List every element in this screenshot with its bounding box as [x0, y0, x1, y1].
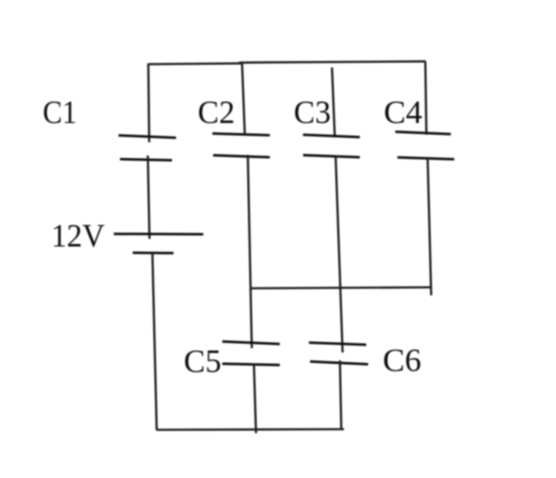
- svg-text:12V: 12V: [51, 219, 105, 255]
- wire battery to bottom rail: [152, 253, 156, 430]
- wire C1 top lead: [147, 64, 150, 143]
- svg-text:C6: C6: [383, 343, 422, 379]
- capacitor C5: [222, 342, 279, 366]
- wire C2 top lead: [242, 62, 245, 134]
- capacitor C6: [309, 343, 368, 365]
- wire C5 bottom lead: [254, 364, 256, 434]
- wire top rail right segment: [239, 61, 426, 62]
- wire bottom rail: [156, 428, 344, 431]
- svg-text:C1: C1: [43, 95, 77, 131]
- wire C3 top lead: [332, 68, 335, 138]
- wire top rail left segment: [148, 62, 241, 65]
- wire C4 top lead: [425, 61, 426, 134]
- svg-text:C2: C2: [198, 95, 235, 131]
- svg-text:C4: C4: [384, 95, 423, 131]
- svg-text:C3: C3: [294, 95, 331, 131]
- wire mid rail: [251, 287, 431, 288]
- capacitor C1: [119, 135, 177, 160]
- wire C3 to C6 lead: [336, 156, 343, 353]
- capacitor C3: [303, 135, 360, 158]
- capacitor C4: [395, 132, 454, 160]
- wire C4 to mid rail lead: [428, 157, 432, 295]
- wire C2 to C5 lead: [248, 155, 252, 348]
- wire C1 to battery lead: [148, 156, 150, 239]
- svg-text:C5: C5: [184, 344, 222, 380]
- battery 12V: [114, 234, 203, 253]
- wire C6 bottom lead: [340, 360, 341, 429]
- capacitor C2: [212, 134, 269, 158]
